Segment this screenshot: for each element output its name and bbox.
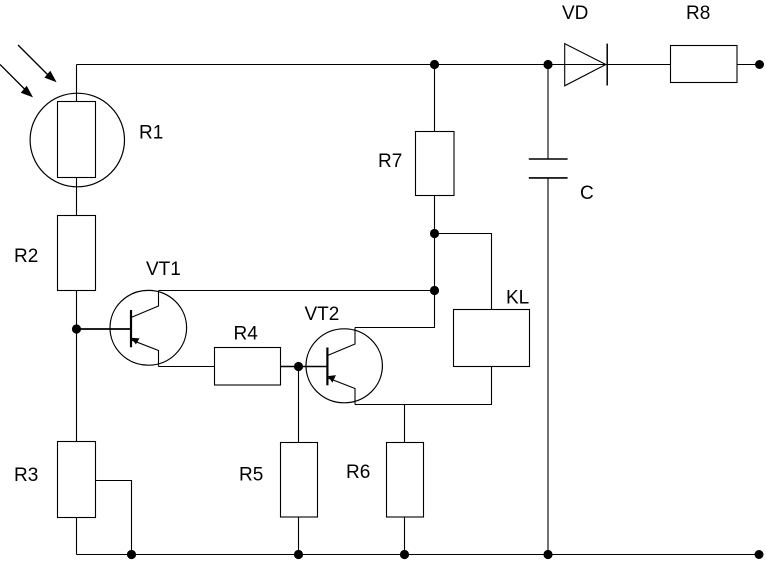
wire R8 right lead [737,64,760,66]
svg-text:VT2: VT2 [305,304,340,325]
svg-text:VT1: VT1 [146,259,181,280]
wire R5 bottom lead [298,517,300,555]
wire VT1 emitter to R4 [159,366,215,368]
wire bottom horizontal bus [77,554,760,556]
resistor R6 [387,443,424,518]
node C bottom junction [543,550,552,559]
transistor VT2 [306,328,382,405]
transistor VT1 [110,290,187,366]
capacitor C [529,159,568,178]
node VT1 collector junction [430,286,439,295]
svg-text:KL: KL [506,288,529,309]
wire R6 top lead [404,405,406,443]
node R3 tap junction [127,550,136,559]
wire top horizontal bus [77,64,608,66]
photoresistor R1 circle [30,93,124,187]
relay coil KL [454,310,530,367]
wire R7 bottom lead [434,196,436,234]
wire R6 bottom lead [404,517,406,555]
wire VT1 base [77,328,131,330]
node base junction VT1 [72,324,81,333]
svg-text:R2: R2 [14,246,38,267]
light arrow 2 [0,65,33,98]
resistor R2 [58,216,96,291]
svg-text:R4: R4 [234,324,259,345]
svg-text:R3: R3 [14,465,38,486]
wire C top lead [547,65,549,160]
wire VD to R8 [607,64,670,66]
wire R1 to R2 [76,178,78,216]
resistor R3 [58,442,96,518]
terminal bottom right [755,550,764,559]
node R7 bottom junction [430,229,439,238]
svg-text:R6: R6 [346,462,370,483]
svg-text:R5: R5 [239,465,263,486]
resistor R8 [671,46,738,83]
terminal top right [755,60,764,69]
diode VD [565,44,608,86]
wire R3 tap [96,481,132,555]
wire R5 top lead [298,367,300,443]
svg-text:C: C [580,183,594,204]
svg-text:R7: R7 [378,151,402,172]
wire R1 top lead [76,65,78,103]
svg-text:R8: R8 [686,3,710,24]
light arrow 1 [18,45,57,82]
wire KL top lead [435,234,492,310]
wire VT2 emitter to KL bottom [355,367,492,405]
wire R3 bottom lead [76,518,78,555]
wire R7 top lead [434,65,436,132]
resistor R7 [416,132,455,196]
wire R4 to VT2 base [281,366,327,368]
wire C bottom lead [547,178,549,555]
resistor body R1 [58,102,96,178]
wire VT2 collector up to R7 node [355,234,435,328]
resistor R5 [281,443,318,518]
node R7 top junction [430,60,439,69]
svg-text:VD: VD [562,3,588,24]
node R6 bottom junction [400,550,409,559]
svg-text:R1: R1 [139,123,163,144]
node R5 bottom junction [294,550,303,559]
node VT2 base junction [294,362,303,371]
wire R2 to R3 [76,291,78,442]
node C top junction [543,60,552,69]
wire VT1 collector [159,290,435,292]
resistor R4 [215,348,281,386]
